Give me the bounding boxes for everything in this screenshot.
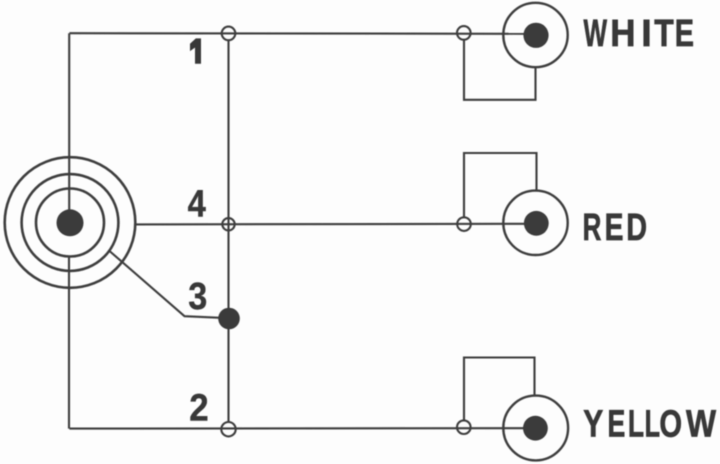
svg-text:4: 4 — [188, 182, 206, 225]
svg-text:E: E — [675, 12, 694, 55]
node 2 — [221, 422, 235, 436]
wire vertical bus — [227, 40, 229, 422]
node 3 junction — [218, 308, 240, 330]
svg-text:L: L — [645, 402, 660, 444]
wire left vertical lower — [68, 256, 70, 428]
svg-text:L: L — [628, 402, 644, 445]
svg-text:O: O — [659, 403, 682, 446]
node 1 — [222, 27, 236, 41]
svg-text:3: 3 — [188, 274, 207, 317]
pin label 1 — [190, 39, 200, 64]
node YELLOW shell tap — [457, 420, 471, 434]
wire loop RED shell — [464, 153, 537, 218]
svg-text:H: H — [610, 12, 635, 55]
svg-text:D: D — [626, 206, 647, 249]
svg-text:2: 2 — [189, 386, 208, 429]
label RED — [583, 206, 647, 249]
label WHITE — [584, 12, 695, 55]
wire bottom: pin2 to YELLOW center — [69, 427, 535, 429]
svg-text:R: R — [583, 206, 602, 248]
connector P1 RCA white — [503, 3, 567, 67]
wire pin3 diagonal — [110, 251, 230, 318]
svg-text:W: W — [584, 12, 608, 55]
wire loop YELLOW shell — [464, 358, 535, 421]
node WHITE shell tap — [457, 26, 471, 40]
svg-text:I: I — [641, 13, 652, 55]
svg-text:E: E — [607, 402, 625, 445]
svg-text:W: W — [686, 403, 717, 445]
connector P3 RCA yellow — [503, 396, 568, 461]
node RED shell tap — [457, 217, 471, 231]
connector P2 RCA red — [503, 191, 567, 255]
wire left vertical — [68, 33, 70, 222]
svg-text:T: T — [654, 13, 674, 55]
wire top: pin1 bus to WHITE center — [69, 32, 536, 35]
label YELLOW — [583, 402, 717, 446]
wire middle: plug tip to RED center — [136, 223, 536, 226]
wire loop WHITE shell — [464, 40, 536, 100]
svg-text:E: E — [605, 207, 624, 249]
svg-text:Y: Y — [583, 403, 603, 445]
connector J1 3.5mm plug — [5, 157, 136, 288]
node 4 — [222, 218, 234, 230]
